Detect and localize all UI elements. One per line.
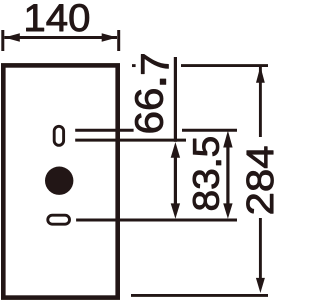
- dimension 140: left arrowhead: [4, 33, 19, 42]
- dimension 140: right extension tick: [117, 30, 120, 51]
- upper slot reference line, segment right of 66.7 label: [182, 129, 237, 132]
- dimension 83.5 left line: dimension line: [174, 157, 177, 205]
- dimension 83.5 left line: down arrowhead: [171, 203, 180, 218]
- dimension 284: lower dimension line segment: [259, 218, 262, 279]
- upper mounting slot (vertical obround): [54, 126, 63, 145]
- dimension 83.5 right line: dimension line: [226, 147, 229, 205]
- dimension 284: down arrowhead: [256, 278, 265, 293]
- top extension line, segment right of 66.7 label: [181, 64, 268, 67]
- dimension 284: value label "284": [246, 147, 273, 214]
- dimension 140: dimension line: [4, 36, 117, 39]
- wiring hole (filled circle): [45, 167, 73, 195]
- upper slot reference line, segment left of 66.7 label: [75, 129, 133, 132]
- dimension 66.7: vertical dimension line: [174, 57, 177, 142]
- lower slot reference line: [75, 139, 186, 142]
- dimension 66.7: value label "66.7": [135, 54, 168, 132]
- dimension 83.5 right line: up arrowhead: [223, 131, 232, 148]
- dimension 83.5 left line: up arrowhead: [171, 142, 180, 158]
- top extension line (plate top level), left dash before 66.7 label: [132, 64, 136, 67]
- lower hole reference line: [76, 219, 237, 222]
- dimension 140: right arrowhead: [102, 33, 118, 42]
- dimension 284: up arrowhead: [256, 66, 265, 83]
- bottom extension line (plate bottom level): [131, 294, 268, 297]
- mounting plate outline: [3, 65, 117, 297]
- dimension 140: value label "140": [26, 4, 88, 31]
- lower mounting slot (horizontal obround): [48, 215, 70, 224]
- dimension 284: upper dimension line segment: [259, 66, 262, 137]
- dimension 83.5 right line: down arrowhead: [223, 203, 232, 218]
- dimension 83.5: value label "83.5": [193, 137, 221, 209]
- dimension 140: left extension tick: [1, 30, 4, 51]
